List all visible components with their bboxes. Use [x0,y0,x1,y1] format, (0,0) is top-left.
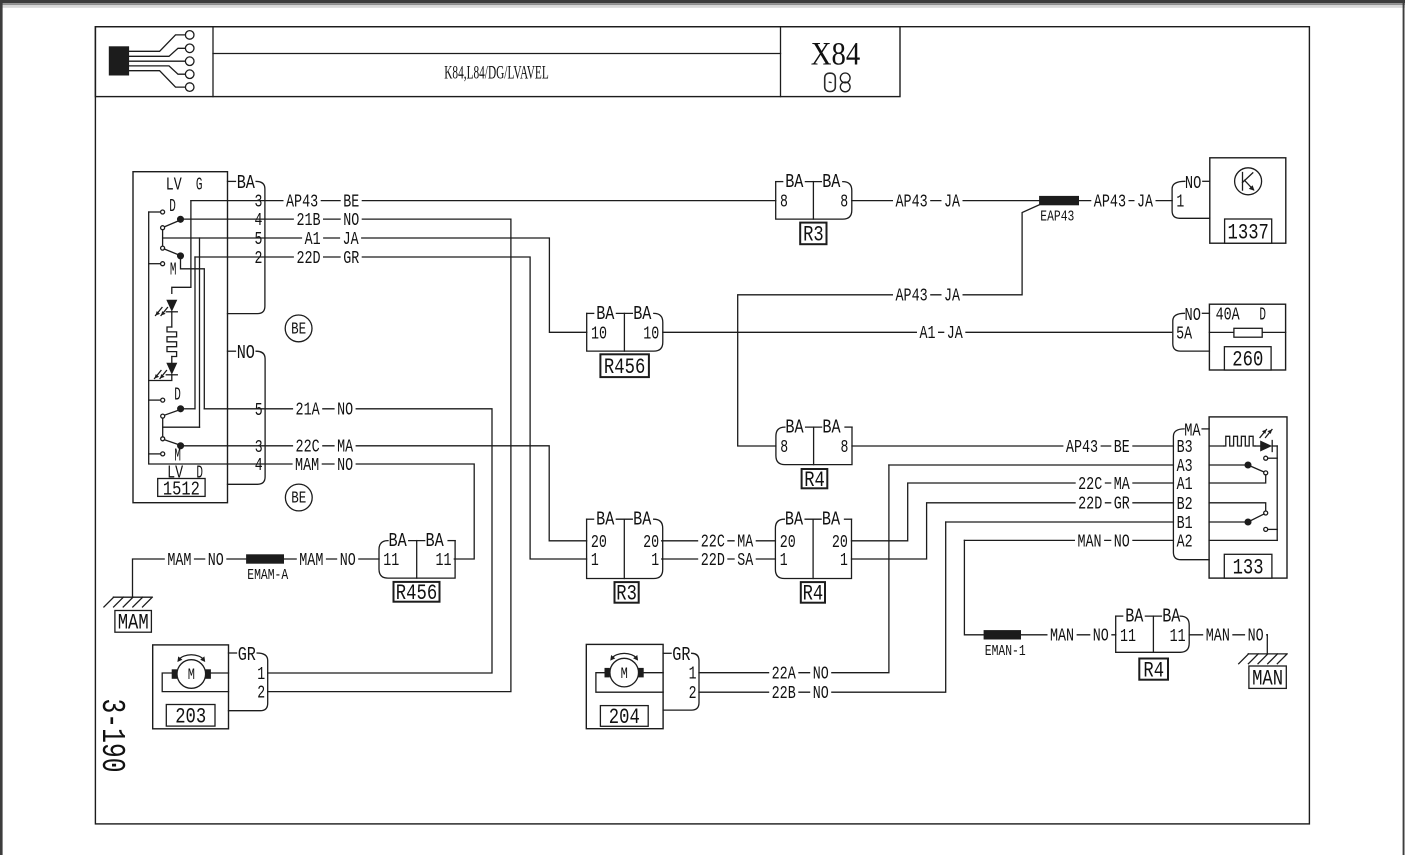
svg-text:BA: BA [389,530,407,552]
svg-text:1: 1 [651,551,659,571]
svg-text:GR: GR [343,249,359,269]
label 22A-NO [769,664,798,681]
wire MAN-NO from R4 to ground MAN [1189,634,1267,636]
1337 label box [1225,219,1272,243]
BE harness circle upper [285,315,312,342]
1512 lower switch contact D [149,399,161,401]
1512 top switch contact M [149,263,161,265]
svg-text:1: 1 [1176,193,1184,213]
label AP43-BE right [1063,438,1100,455]
svg-text:5: 5 [255,230,263,250]
svg-text:MA: MA [737,533,753,553]
wire AP43-JA branch to R4 [738,205,1039,446]
133 internal resistor [1209,445,1224,447]
svg-text:AP43: AP43 [896,193,928,213]
svg-text:A1: A1 [1177,475,1193,495]
svg-text:NO: NO [813,684,829,704]
wire A1-JA from R456 to fuse 260 [663,331,1172,333]
connector R4 upper 8-8 [776,427,852,465]
203 internal wiring [211,672,229,674]
svg-text:22D: 22D [1078,495,1102,515]
svg-text:JA: JA [947,324,963,344]
label AP43-JA left [893,192,930,209]
svg-text:BA: BA [785,171,803,193]
1512 top switch mid contacts [161,226,165,230]
svg-text:BA: BA [785,417,803,439]
connector R456 middle 10-10 [587,313,663,351]
svg-text:2: 2 [689,684,697,704]
1512 inner wire pin2 riser [194,257,196,409]
svg-text:AP43: AP43 [1094,193,1126,213]
svg-text:22D: 22D [701,551,725,571]
svg-text:22C: 22C [296,438,320,458]
harness connector icon [109,46,129,75]
svg-text:10: 10 [591,324,607,344]
label MAN-NO at 133 [1075,532,1104,549]
svg-text:3-190: 3-190 [93,699,130,773]
1512 lamp return wire [149,375,172,381]
wire 22D-SA between R3 and R4 lower [662,558,776,560]
svg-text:A3: A3 [1177,457,1193,477]
svg-text:MA: MA [337,438,353,458]
1512 top switch blade 2 and common dot [164,249,180,256]
ground MAM symbol [113,596,151,598]
1512 lamp series resistor [171,312,173,327]
svg-text:3: 3 [255,438,263,458]
wire MAM-NO from ground to splice EMAM-A [133,559,247,597]
wire 21B-NO from 1512 pin4 to motor 203 pin2 [181,219,511,691]
svg-text:MAN: MAN [1050,627,1074,647]
svg-text:NO: NO [1185,173,1201,194]
svg-text:JA: JA [944,287,960,307]
svg-text:11: 11 [1170,627,1186,647]
svg-text:21A: 21A [296,401,320,421]
1512 connector bracket NO [228,350,236,352]
svg-text:20: 20 [643,533,659,553]
ground MAN symbol [1248,653,1287,655]
wire AP43-JA from R3 to splice EAP43 [852,200,1039,202]
svg-text:NO: NO [337,456,353,476]
svg-text:1: 1 [257,665,265,685]
component 260 box [1209,304,1285,370]
1512 lamp LED 1 [166,300,177,312]
svg-text:204: 204 [609,705,640,730]
svg-text:K84,L84/DG/LVAVEL: K84,L84/DG/LVAVEL [444,63,549,84]
svg-text:R456: R456 [604,355,645,380]
label AP43-JA branch [893,287,930,304]
wire 22A-NO from 204 pin1 to 133 A3 [699,465,889,673]
svg-text:11: 11 [436,551,452,571]
label 22D-GR right [1076,495,1105,512]
204 motor symbol [610,658,639,687]
svg-text:MAN: MAN [1077,532,1101,552]
133 internal A2 wire [1209,539,1277,541]
svg-text:4: 4 [255,211,263,231]
wire MAN-NO from splice to R4 [1021,634,1116,636]
svg-text:A2: A2 [1177,532,1193,552]
wire AP43-JA from splice to 1337 [1079,200,1172,202]
1512 top switch contact D [149,211,161,213]
260 label box [1224,347,1271,370]
title block divider before X84 cell [780,27,782,97]
133 label box [1224,554,1272,578]
svg-text:NO: NO [1248,627,1264,647]
svg-text:AP43: AP43 [286,193,318,213]
204 internal wiring [644,672,663,674]
svg-text:BA: BA [822,417,840,439]
svg-text:AP43: AP43 [896,287,928,307]
splice EAP43 [1039,196,1079,205]
203 connector bracket GR pins 1-2 [229,652,237,654]
sheet number 08 display digits [825,73,850,92]
1512 label box [158,479,205,497]
svg-text:R3: R3 [616,582,637,607]
wire MAM-NO from 1512 NO pin4 to R456 lower [228,464,475,559]
label 22B-NO [769,684,798,701]
svg-text:203: 203 [175,705,206,730]
svg-text:22D: 22D [296,249,320,269]
component 133 box [1209,417,1287,578]
1512 lower switch link to pin5 riser [163,426,200,428]
260 fuse symbol [1209,331,1285,333]
component 204 wiper-motor box [586,644,663,728]
svg-text:JA: JA [944,193,960,213]
label AP43-BE [284,192,321,209]
wire 22C-MA from R4 lower to 133 A1 [852,483,1174,541]
svg-text:5A: 5A [1176,324,1192,344]
label 22C-MA middle [698,533,727,550]
1512 connector bracket BA [228,180,236,182]
ground MAM label box [115,611,151,633]
svg-text:R4: R4 [803,582,824,607]
svg-text:MAN: MAN [1206,627,1230,647]
svg-text:B1: B1 [1177,514,1193,534]
component 1512 lighting-switch box [133,172,228,503]
svg-text:8: 8 [841,438,849,458]
1512 inner wire pin3 riser [172,201,191,294]
svg-text:M: M [188,666,195,684]
svg-text:G: G [196,175,203,195]
svg-text:4: 4 [255,456,263,476]
svg-text:R4: R4 [1143,658,1164,683]
wire B1 row into 133 [946,521,1174,523]
svg-text:MAM: MAM [167,551,191,571]
label 22C-MA right [1076,475,1105,492]
page scan border left [0,0,3,855]
svg-text:MAN: MAN [1252,666,1283,691]
svg-text:BA: BA [633,509,651,531]
label 22C-MA [293,438,322,455]
svg-text:260: 260 [1232,348,1263,373]
svg-text:NO: NO [1114,532,1130,552]
133 internal LED [1255,445,1260,447]
label MAN-NO left of R4 [1048,627,1077,644]
svg-text:1: 1 [780,551,788,571]
label A1-JA [302,230,323,247]
page scan border right [1403,0,1405,855]
204 label box [600,706,648,727]
wire 22B-NO from 204 pin2 to 133 B1 [699,522,946,692]
component 1337 box [1210,158,1286,243]
svg-text:EMAN-1: EMAN-1 [985,643,1026,660]
connector R4 ground 11-11 [1116,616,1190,652]
svg-text:EAP43: EAP43 [1040,209,1074,226]
svg-text:MAM: MAM [295,456,319,476]
wire 22D-GR from 1512 pin2 to R3 lower pin1 [195,257,587,559]
splice EMAN-1 [984,630,1021,639]
svg-text:22C: 22C [701,533,725,553]
svg-text:R3: R3 [803,223,824,248]
connector R456 lower 11-11 [379,541,455,579]
title block middle rule [213,53,781,55]
wire 21A-NO from 1512 NO pin5 to motor 203 pin1 [181,408,195,410]
svg-text:R456: R456 [396,581,437,606]
label 21B-NO [294,211,323,228]
1512 lower switch blade 1 and common dot [164,410,180,416]
svg-text:D: D [174,385,181,405]
svg-text:2: 2 [257,684,265,704]
wire AP43-BE from R4 to 133 B3 [852,445,1173,447]
svg-text:133: 133 [1233,555,1264,580]
svg-text:BA: BA [596,509,614,531]
260 connector bracket NO pin 5A [1202,312,1209,314]
wire MAN-NO from 133 A2 to splice EMAN-1 [964,539,1173,541]
svg-text:40A: 40A [1216,306,1240,326]
svg-text:BE: BE [343,193,359,213]
svg-text:3: 3 [255,193,263,213]
svg-text:MA: MA [1114,475,1130,495]
svg-text:BA: BA [822,509,840,531]
svg-text:20: 20 [780,533,796,553]
splice EMAM-A [246,554,284,563]
1512 lower switch mid contacts [161,414,165,418]
component 203 wiper-motor box [153,645,229,729]
svg-text:BA: BA [1162,606,1180,628]
svg-text:JA: JA [343,230,359,250]
svg-text:8: 8 [780,193,788,213]
svg-text:MAM: MAM [118,611,149,636]
title block divider after icon cell [212,27,214,97]
svg-text:21B: 21B [296,211,320,231]
label MAM-NO right [297,551,326,568]
svg-text:BA: BA [785,509,803,531]
svg-text:20: 20 [591,533,607,553]
1512 top switch blade 1 and common dot [164,220,180,227]
svg-text:BA: BA [633,303,651,325]
svg-text:D: D [1259,306,1266,326]
1512 left rail [149,212,228,464]
svg-text:NO: NO [1093,627,1109,647]
svg-text:D: D [169,197,176,217]
label MAM-NO upper [293,456,322,473]
svg-text:NO: NO [343,211,359,231]
1512 lower switch contact M [149,453,161,455]
svg-text:BE: BE [291,320,306,339]
133 connector bracket MA pins B3-A2 [1202,428,1209,430]
label A1-JA middle [917,324,938,341]
svg-text:1337: 1337 [1228,220,1269,245]
svg-text:BE: BE [1114,438,1130,458]
133 internal switch 2 [1209,503,1266,511]
svg-text:8: 8 [780,438,788,458]
203 motor symbol [177,660,206,689]
wire 22D-GR from R4 lower to 133 B2 [852,503,1174,559]
wire A1-JA from 1512 pin5 to R456 [163,238,587,332]
svg-text:SA: SA [737,551,753,571]
1337 timer-relay symbol [1235,168,1262,195]
svg-text:BE: BE [291,489,306,508]
svg-text:22B: 22B [772,684,796,704]
svg-text:NO: NO [813,665,829,685]
svg-text:NO: NO [337,401,353,421]
connector R3 lower 20-1 [587,519,663,578]
wire A3 row into 133 [889,464,1174,466]
svg-text:B3: B3 [1177,438,1193,458]
svg-text:BA: BA [426,530,444,552]
svg-text:BA: BA [237,172,255,194]
svg-text:NO: NO [1185,305,1201,326]
svg-text:B2: B2 [1177,495,1193,515]
svg-text:EMAM-A: EMAM-A [247,567,288,584]
133 internal switch 1 [1264,456,1268,460]
133 internal right rail [1276,446,1278,540]
label AP43-JA right [1091,192,1128,209]
1337 connector bracket NO pin1 [1203,180,1210,182]
svg-text:X84: X84 [811,36,861,72]
svg-text:AP43: AP43 [1066,438,1098,458]
204 connector bracket GR pins 1-2 [663,652,671,654]
page scan border top [0,0,1405,3]
svg-text:BA: BA [1125,606,1143,628]
svg-text:GR: GR [1114,495,1130,515]
svg-text:A1: A1 [920,324,936,344]
1512 lamp LED 2 [171,357,173,364]
svg-text:20: 20 [832,533,848,553]
svg-text:NO: NO [340,551,356,571]
label MAM-NO left [165,551,194,568]
svg-text:1512: 1512 [163,479,200,501]
svg-text:BA: BA [822,171,840,193]
svg-text:22A: 22A [772,665,796,685]
BE harness circle lower [285,484,312,511]
svg-text:A1: A1 [305,230,321,250]
svg-text:2: 2 [255,249,263,269]
svg-text:5: 5 [255,401,263,421]
svg-text:M: M [170,260,177,280]
svg-text:22C: 22C [1078,475,1102,495]
svg-text:BA: BA [596,303,614,325]
svg-text:LV: LV [166,175,182,195]
svg-text:GR: GR [238,644,256,666]
1512 lower switch blade 2 and common dot [164,440,180,446]
203 label box [166,705,215,727]
connector R4 lower 20-1 [775,519,851,578]
wire AP43-BE from 1512 pin3 to R3 [191,200,776,202]
svg-text:MAM: MAM [299,551,323,571]
label 21A-NO [293,401,322,418]
svg-text:11: 11 [383,551,399,571]
wire MAM-NO from splice to R456 lower [284,558,379,560]
svg-text:1: 1 [591,551,599,571]
1512 inner wire M riser [181,256,205,409]
label MAN-NO right of R4 [1203,627,1232,644]
label 22D-GR [294,249,323,266]
svg-text:R4: R4 [804,468,825,493]
label 22D-SA middle [698,551,727,568]
svg-text:1: 1 [840,551,848,571]
wire 22C-MA between R3 and R4 lower [662,540,776,542]
svg-text:11: 11 [1120,627,1136,647]
svg-text:10: 10 [643,324,659,344]
svg-text:8: 8 [840,193,848,213]
wire 22C-MA from 1512 NO pin3 to R3 lower pin20 [181,446,587,541]
svg-text:NO: NO [208,551,224,571]
svg-text:M: M [621,665,628,683]
ground MAN label box [1249,666,1286,688]
1512 inner wire pin5 riser [199,238,201,427]
svg-text:1: 1 [689,665,697,685]
svg-text:JA: JA [1137,193,1153,213]
svg-text:GR: GR [672,644,690,666]
connector R3 upper 8-8 [776,182,852,220]
svg-text:NO: NO [237,342,255,364]
title block box [95,27,900,97]
